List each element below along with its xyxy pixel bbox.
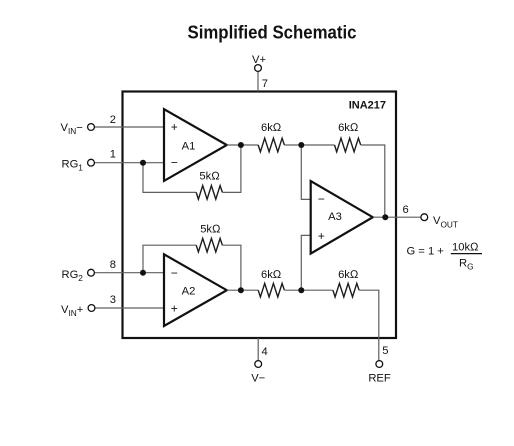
svg-text:5kΩ: 5kΩ — [199, 170, 220, 182]
svg-text:REF: REF — [368, 372, 391, 384]
wire bottom junction up to A3 + input — [301, 235, 311, 290]
resistor 6k bottom-right — [333, 283, 359, 297]
op-amp A3 — [311, 181, 373, 254]
resistor 6k bottom-left — [258, 283, 284, 297]
gain equation — [407, 241, 483, 271]
junction dot A3 output — [382, 214, 388, 220]
svg-text:A3: A3 — [328, 211, 342, 223]
svg-text:2: 2 — [110, 114, 116, 126]
svg-text:−: − — [318, 192, 325, 206]
terminal RG1 — [88, 159, 95, 166]
svg-text:A1: A1 — [182, 140, 196, 152]
junction dot bottom mid node — [298, 287, 304, 293]
resistor 6k top-left — [258, 138, 284, 152]
terminal VIN- — [88, 124, 95, 131]
junction dot top mid node — [298, 142, 304, 148]
wire between bottom resistors — [284, 289, 333, 291]
wire pin3 VIN+ to A2 + input — [95, 307, 165, 309]
svg-text:1: 1 — [110, 149, 116, 161]
svg-text:10kΩ: 10kΩ — [452, 241, 479, 253]
svg-text:6kΩ: 6kΩ — [338, 269, 359, 281]
junction dot A2 minus node — [140, 270, 146, 276]
wire A2 feedback right to output — [222, 245, 241, 290]
resistor 5k A2 feedback — [196, 238, 222, 252]
op-amp A2 — [164, 254, 227, 326]
svg-text:+: + — [171, 301, 178, 315]
IC boundary box — [123, 92, 397, 339]
svg-text:4: 4 — [262, 346, 268, 358]
svg-text:A2: A2 — [182, 286, 196, 298]
svg-text:G = 1 +: G = 1 + — [407, 246, 444, 258]
junction dot A1 minus node — [140, 160, 146, 166]
svg-text:6kΩ: 6kΩ — [261, 269, 282, 281]
wire pin2 VIN- to A1 + input — [95, 126, 165, 128]
junction dot A2 output — [238, 287, 244, 293]
pin 5 REF at bottom — [368, 345, 391, 384]
svg-text:6kΩ: 6kΩ — [261, 122, 282, 134]
svg-text:3: 3 — [110, 294, 116, 306]
wire between top resistors — [284, 144, 334, 146]
wire top junction down to A3 - input — [301, 145, 311, 199]
svg-text:Simplified Schematic: Simplified Schematic — [188, 21, 357, 42]
wire A3 output to VOUT terminal — [373, 216, 421, 218]
terminal VIN+ — [88, 305, 95, 312]
svg-text:6: 6 — [403, 204, 409, 216]
svg-text:−: − — [171, 155, 178, 169]
svg-text:8: 8 — [110, 259, 116, 271]
op-amp A1 — [164, 109, 227, 181]
svg-text:INA217: INA217 — [349, 100, 386, 112]
svg-text:V+: V+ — [252, 54, 266, 66]
wire A2 feedback left vertical — [143, 245, 196, 273]
svg-text:7: 7 — [262, 78, 268, 90]
wire pin8 RG2 to A2 - input — [95, 272, 165, 274]
svg-text:V−: V− — [251, 372, 265, 384]
resistor 5k A1 feedback — [196, 186, 222, 200]
svg-text:+: + — [318, 229, 325, 243]
svg-text:−: − — [171, 266, 178, 280]
junction dot A1 output — [238, 142, 244, 148]
svg-text:5kΩ: 5kΩ — [200, 223, 221, 235]
pin 4 V- at bottom — [251, 338, 268, 384]
svg-text:6kΩ: 6kΩ — [338, 122, 359, 134]
resistor 6k top-right — [335, 138, 361, 152]
wire A1 feedback right to output — [222, 145, 241, 193]
terminal VOUT — [421, 214, 428, 221]
wire bottom-right corner down to REF pin 5 — [359, 290, 379, 361]
terminal RG2 — [88, 269, 95, 276]
wire A1 feedback left vertical — [143, 163, 196, 193]
svg-text:+: + — [171, 120, 178, 134]
wire A1 output row — [227, 144, 258, 146]
wire pin1 RG1 to A1 - input — [95, 162, 165, 164]
pin 7 V+ at top — [252, 54, 268, 92]
wire top-right corner down to A3 output — [361, 145, 385, 217]
svg-text:5: 5 — [382, 345, 388, 357]
wire A2 output row — [227, 289, 258, 291]
